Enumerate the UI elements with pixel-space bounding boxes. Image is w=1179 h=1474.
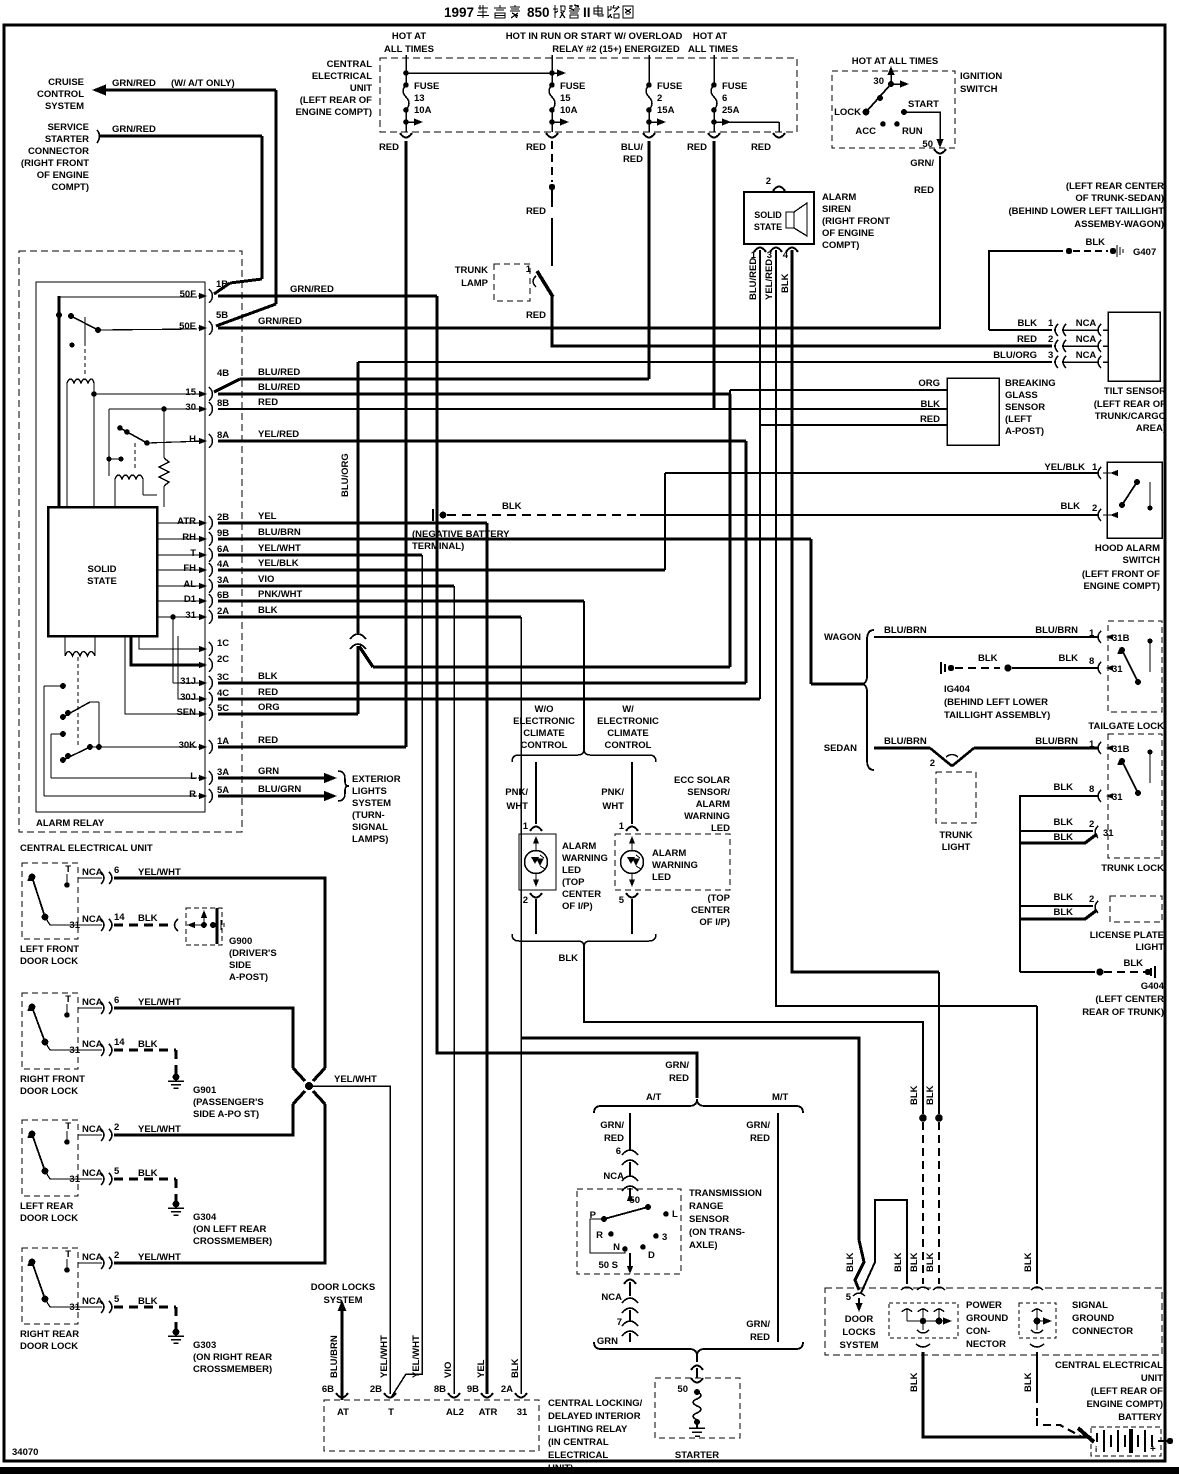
- svg-text:4B: 4B: [217, 368, 229, 379]
- svg-text:G407: G407: [1133, 247, 1156, 258]
- wire BLK dashed pair from dots: [919, 1114, 927, 1122]
- svg-text:YEL/WHT: YEL/WHT: [334, 1074, 377, 1085]
- svg-text:DOOR LOCK: DOOR LOCK: [20, 1213, 78, 1224]
- wire YEL/WHT RF T to X junction: [114, 1008, 293, 1068]
- svg-text:OF ENGINE: OF ENGINE: [37, 170, 89, 181]
- svg-text:ATR: ATR: [479, 1407, 498, 1418]
- svg-text:FUSE: FUSE: [414, 81, 439, 92]
- svg-text:8A: 8A: [217, 430, 229, 441]
- wire GRN 3A to exterior lights: [218, 776, 330, 779]
- svg-text:ATR: ATR: [177, 516, 196, 527]
- svg-text:T: T: [190, 548, 196, 559]
- svg-text:ECC SOLAR: ECC SOLAR: [674, 775, 730, 786]
- relay switch 2: [117, 425, 123, 431]
- svg-text:30J: 30J: [180, 692, 196, 703]
- svg-text:RED: RED: [669, 1073, 689, 1084]
- svg-text:UNIT): UNIT): [548, 1463, 573, 1474]
- svg-text:2: 2: [930, 758, 935, 769]
- wire riser VIO 3A x454 down to pin 8B: [453, 586, 455, 1394]
- wire BLK license plate pair: [1020, 905, 1093, 907]
- svg-text:DOOR: DOOR: [845, 1314, 874, 1325]
- svg-text:14: 14: [114, 912, 125, 923]
- svg-text:LEFT REAR: LEFT REAR: [20, 1201, 73, 1212]
- wire BLK to G407: [989, 251, 1063, 330]
- svg-text:G304: G304: [193, 1212, 217, 1223]
- left front door lock box: [22, 863, 78, 939]
- svg-text:GRN/RED: GRN/RED: [258, 316, 302, 327]
- svg-text:HOT IN RUN OR START W/ OVERLOA: HOT IN RUN OR START W/ OVERLOAD: [506, 31, 683, 42]
- svg-text:YEL/WHT: YEL/WHT: [258, 543, 301, 554]
- svg-text:(BEHIND LOWER LEFT TAILLIGHT: (BEHIND LOWER LEFT TAILLIGHT: [1009, 206, 1165, 217]
- wire link fuse13 to fuse15 inside CEU: [406, 72, 552, 74]
- svg-text:NCA: NCA: [82, 1124, 103, 1135]
- svg-text:ORG: ORG: [918, 378, 940, 389]
- alarm warning LED w/ ECC symbol: [621, 851, 644, 874]
- ground symbol G901: [173, 1074, 180, 1081]
- svg-text:OF I/P): OF I/P): [562, 901, 593, 912]
- svg-text:4C: 4C: [217, 688, 229, 699]
- siren pins 1 3 4: [754, 248, 766, 253]
- svg-text:1: 1: [1092, 462, 1098, 473]
- svg-text:LIGHT: LIGHT: [1136, 942, 1165, 953]
- tailgate lock box: [1108, 621, 1162, 712]
- svg-text:BLK: BLK: [1017, 318, 1037, 329]
- svg-text:ALARM RELAY: ALARM RELAY: [36, 818, 105, 829]
- svg-text:RED: RED: [750, 1332, 770, 1343]
- central electrical unit dashed box (left): [19, 251, 242, 832]
- svg-text:W/O: W/O: [535, 704, 554, 715]
- svg-text:CONTROL: CONTROL: [521, 740, 568, 751]
- svg-text:STARTER: STARTER: [675, 1450, 719, 1461]
- svg-text:FUSE: FUSE: [657, 81, 682, 92]
- wire riser x730 (BLU/RED 15) down to row 667: [728, 394, 731, 667]
- svg-text:50 S: 50 S: [598, 1260, 618, 1271]
- ignition switch contacts and blade: [888, 81, 894, 87]
- svg-text:PNK/WHT: PNK/WHT: [258, 589, 303, 600]
- svg-text:AREA): AREA): [1136, 423, 1166, 434]
- wire BLK 3C to riser x746: [218, 681, 746, 684]
- svg-text:RUN: RUN: [902, 126, 923, 137]
- svg-text:6: 6: [616, 1146, 621, 1157]
- svg-text:CENTER: CENTER: [691, 905, 730, 916]
- transmission switch contacts: [645, 1204, 651, 1210]
- svg-text:LIGHT: LIGHT: [942, 842, 971, 853]
- svg-text:BLU/ORG: BLU/ORG: [993, 350, 1037, 361]
- exterior lights brace: [338, 771, 349, 801]
- svg-text:BLK: BLK: [1053, 782, 1073, 793]
- svg-text:A-POST): A-POST): [229, 972, 268, 983]
- svg-text:BLK: BLK: [138, 1168, 158, 1179]
- svg-text:BLK: BLK: [893, 1252, 904, 1272]
- wagon sedan brace: [861, 630, 874, 770]
- svg-text:RED: RED: [379, 142, 399, 153]
- lower brace LED columns: [512, 934, 656, 947]
- svg-text:(PASSENGER'S: (PASSENGER'S: [193, 1097, 264, 1108]
- wire GRN/RED ignition 50 down to 50E row: [939, 156, 941, 329]
- svg-text:6: 6: [114, 865, 119, 876]
- svg-text:BLK: BLK: [780, 273, 791, 293]
- svg-text:BLU/: BLU/: [621, 142, 644, 153]
- wire BLK power ground down to battery: [923, 1352, 1089, 1437]
- svg-text:2: 2: [1092, 503, 1097, 514]
- svg-text:SIGNAL: SIGNAL: [352, 822, 388, 833]
- svg-text:GRN/: GRN/: [600, 1120, 624, 1131]
- svg-text:(DRIVER'S: (DRIVER'S: [229, 948, 277, 959]
- svg-text:BLK: BLK: [258, 671, 278, 682]
- wire row 667 from riser x730 to BLU/ORG connector: [373, 665, 730, 668]
- svg-text:5: 5: [114, 1166, 120, 1177]
- svg-text:31B: 31B: [1112, 744, 1130, 755]
- svg-text:TILT SENSOR: TILT SENSOR: [1104, 386, 1166, 397]
- svg-text:L: L: [672, 1209, 678, 1220]
- svg-text:GROUND: GROUND: [966, 1313, 1008, 1324]
- svg-text:RED: RED: [258, 687, 278, 698]
- alarm warning LED w/ ECC wire bottom: [631, 899, 633, 934]
- svg-text:WHT: WHT: [506, 801, 528, 812]
- svg-text:1: 1: [523, 821, 529, 832]
- pin 2B T central locking relay: [384, 1393, 396, 1398]
- svg-text:34070: 34070: [12, 1447, 38, 1458]
- pin 8B AL2 central locking relay: [448, 1393, 460, 1398]
- wire BLK glass sensor row: [218, 408, 947, 410]
- bottom central electrical unit dashed box: [825, 1288, 1162, 1355]
- svg-text:ALL TIMES: ALL TIMES: [688, 44, 738, 55]
- left rear door lock 31 pin row: [78, 1178, 102, 1180]
- svg-text:TRUNK LOCK: TRUNK LOCK: [1101, 863, 1164, 874]
- svg-text:10A: 10A: [560, 105, 578, 116]
- svg-text:3A: 3A: [217, 767, 229, 778]
- wire BLK G404 wagon to tailgate 31: [941, 662, 945, 674]
- svg-text:(LEFT REAR OF: (LEFT REAR OF: [1091, 1386, 1163, 1397]
- wire riser GRN/RED 50F x437 down then right to A/T: [437, 296, 697, 1098]
- svg-text:TRUNK: TRUNK: [939, 830, 972, 841]
- trunk light box: [936, 772, 976, 823]
- hook wire power ground pin1 to door locks wire: [861, 1200, 907, 1293]
- svg-text:NCA: NCA: [82, 867, 103, 878]
- svg-text:ALARM: ALARM: [652, 848, 686, 859]
- svg-text:R: R: [189, 789, 196, 800]
- bottom thick border bar: [0, 1467, 1179, 1474]
- svg-text:RED: RED: [687, 142, 707, 153]
- svg-text:2B: 2B: [370, 1384, 382, 1395]
- svg-text:GRN: GRN: [597, 1336, 618, 1347]
- svg-text:CONTROL: CONTROL: [37, 89, 84, 100]
- svg-text:5A: 5A: [217, 785, 229, 796]
- svg-text:YEL/WHT: YEL/WHT: [138, 997, 181, 1008]
- svg-text:31J: 31J: [180, 676, 196, 687]
- svg-text:YEL: YEL: [258, 511, 277, 522]
- svg-text:YEL/WHT: YEL/WHT: [411, 1335, 422, 1378]
- svg-text:14: 14: [114, 1037, 125, 1048]
- svg-text:A-POST): A-POST): [1005, 426, 1044, 437]
- svg-text:POWER: POWER: [966, 1300, 1002, 1311]
- svg-text:OF ENGINE: OF ENGINE: [822, 228, 874, 239]
- alarm relay inner box: [36, 282, 205, 812]
- wire 15 row inside relay: [91, 391, 97, 397]
- left rear door lock box: [22, 1120, 78, 1196]
- svg-text:5B: 5B: [216, 310, 228, 321]
- svg-text:NCA: NCA: [1076, 334, 1097, 345]
- svg-text:8: 8: [1089, 784, 1094, 795]
- svg-text:RIGHT REAR: RIGHT REAR: [20, 1329, 79, 1340]
- svg-text:RED: RED: [258, 735, 278, 746]
- svg-text:SYSTEM: SYSTEM: [45, 101, 84, 112]
- wire BLK door locks 5 bend: [855, 1240, 864, 1290]
- svg-text:6: 6: [114, 995, 119, 1006]
- alarm warning LED w/ ECC pin bottom: [626, 893, 638, 898]
- wires solid state right edge to pins: [157, 522, 205, 524]
- wire BLU/BRN 9B to riser x811: [218, 537, 811, 540]
- wire RED 4C to riser x760: [218, 697, 760, 700]
- svg-text:BATTERY: BATTERY: [1118, 1412, 1162, 1423]
- svg-text:TRUNK/CARGO: TRUNK/CARGO: [1095, 411, 1166, 422]
- svg-text:ENGINE COMPT): ENGINE COMPT): [1083, 581, 1160, 592]
- svg-text:1997: 1997: [444, 5, 474, 20]
- trunk lock box: [1108, 734, 1162, 858]
- ground symbol G304: [173, 1201, 180, 1208]
- right front door lock switch: [29, 1004, 36, 1011]
- svg-text:SIREN: SIREN: [822, 204, 851, 215]
- svg-text:SENSOR: SENSOR: [1005, 402, 1045, 413]
- svg-text:G901: G901: [193, 1085, 217, 1096]
- alarm siren box: [744, 192, 814, 244]
- svg-text:2: 2: [523, 895, 528, 906]
- svg-text:GRN: GRN: [258, 766, 279, 777]
- svg-text:50: 50: [629, 1195, 640, 1206]
- left rear door lock switch: [29, 1131, 36, 1138]
- svg-text:BLK: BLK: [909, 1252, 920, 1272]
- X junction of YEL/WHT wires: [293, 1068, 305, 1081]
- wire riser YEL 2B x487 down to pin 9B: [485, 523, 488, 1394]
- svg-text:BLK: BLK: [510, 1358, 521, 1378]
- wire vertical from cruise line down to pin 5B: [275, 90, 278, 304]
- wire 1B diagonal: [214, 283, 230, 294]
- svg-text:SOLID: SOLID: [87, 564, 116, 575]
- wire to starter: [696, 1356, 698, 1362]
- svg-text:RED: RED: [526, 310, 546, 321]
- wire YEL/WHT X junction to relay pin 2B: [313, 1086, 390, 1394]
- power ground connector box: [889, 1303, 958, 1338]
- svg-text:9B: 9B: [217, 528, 229, 539]
- svg-text:BLK: BLK: [978, 653, 998, 664]
- svg-text:BLK: BLK: [1123, 958, 1143, 969]
- wire riser x665 hood YEL/BLK down to 4A row: [664, 473, 666, 570]
- svg-text:RANGE: RANGE: [689, 1201, 723, 1212]
- svg-text:5: 5: [619, 895, 625, 906]
- alarm warning LED w/ ECC box: [615, 834, 730, 890]
- svg-text:D: D: [648, 1250, 655, 1261]
- alarm warning LED w/o ECC wire top: [535, 762, 537, 824]
- svg-text:LAMP: LAMP: [461, 278, 489, 289]
- power ground connector pins: [901, 1287, 913, 1290]
- svg-text:FH: FH: [183, 563, 196, 574]
- svg-text:WHT: WHT: [602, 801, 624, 812]
- svg-text:CENTRAL ELECTRICAL UNIT: CENTRAL ELECTRICAL UNIT: [20, 843, 153, 854]
- svg-text:LED: LED: [562, 865, 581, 876]
- wire BLU/BRN wagon row: [874, 636, 1098, 638]
- wire BLK neg battery to hood pin 2: [447, 514, 640, 516]
- svg-text:SENSOR/: SENSOR/: [687, 787, 730, 798]
- svg-text:BLK: BLK: [258, 605, 278, 616]
- alarm warning LED w/o ECC pin bottom: [530, 893, 542, 898]
- trunk lamp switch blade: [533, 276, 536, 287]
- svg-text:II: II: [583, 5, 591, 20]
- svg-text:GLASS: GLASS: [1005, 390, 1038, 401]
- svg-text:DOOR LOCKS: DOOR LOCKS: [311, 1282, 375, 1293]
- svg-text:1: 1: [1089, 739, 1095, 750]
- svg-text:SEDAN: SEDAN: [824, 743, 857, 754]
- svg-text:50E: 50E: [179, 321, 196, 332]
- solid state bottom coil: [64, 636, 66, 650]
- svg-text:TRUNK: TRUNK: [455, 265, 488, 276]
- svg-text:BLK: BLK: [845, 1252, 856, 1272]
- svg-text:2: 2: [1089, 894, 1094, 905]
- wire riser x746 (YEL/RED 8A) down to 3C row: [744, 441, 747, 683]
- svg-text:D1: D1: [184, 594, 197, 605]
- svg-text:LAMPS): LAMPS): [352, 834, 388, 845]
- svg-text:M/T: M/T: [772, 1092, 789, 1103]
- svg-text:CONNECTOR: CONNECTOR: [28, 146, 89, 157]
- svg-text:BLK: BLK: [1053, 892, 1073, 903]
- svg-text:10A: 10A: [414, 105, 432, 116]
- svg-text:GROUND: GROUND: [1072, 1313, 1114, 1324]
- wire BLK branch row 1038 to door locks 5: [521, 1038, 859, 1240]
- svg-text:HOOD ALARM: HOOD ALARM: [1095, 543, 1160, 554]
- svg-text:RED: RED: [604, 1133, 624, 1144]
- svg-text:NCA: NCA: [82, 997, 103, 1008]
- svg-text:BLK: BLK: [558, 953, 578, 964]
- svg-text:RED: RED: [526, 142, 546, 153]
- svg-text:DOOR LOCK: DOOR LOCK: [20, 1086, 78, 1097]
- wire VIO 3A to riser x454: [218, 584, 454, 587]
- svg-text:31: 31: [517, 1407, 528, 1418]
- svg-text:RED: RED: [258, 397, 278, 408]
- ground G304: [114, 1178, 176, 1181]
- svg-text:LIGHTS: LIGHTS: [352, 786, 387, 797]
- svg-text:BLK: BLK: [1053, 907, 1073, 918]
- svg-text:L: L: [190, 771, 196, 782]
- relay coil 1: [67, 379, 94, 383]
- svg-text:9B: 9B: [467, 1384, 479, 1395]
- svg-text:30K: 30K: [179, 740, 197, 751]
- svg-text:NCA: NCA: [82, 914, 103, 925]
- wire BLK trunk lock 8/31: [1020, 796, 1098, 827]
- svg-text:6B: 6B: [217, 590, 229, 601]
- svg-text:(LEFT: (LEFT: [1005, 414, 1032, 425]
- svg-text:(BEHIND LEFT LOWER: (BEHIND LEFT LOWER: [944, 697, 1048, 708]
- svg-text:SIDE: SIDE: [229, 960, 251, 971]
- svg-text:COMPT): COMPT): [52, 182, 89, 193]
- wire RED fuse6 down to RED row 409: [712, 141, 715, 409]
- svg-text:2: 2: [114, 1122, 119, 1133]
- svg-text:ENGINE COMPT): ENGINE COMPT): [1086, 1399, 1163, 1410]
- svg-text:(IN CENTRAL: (IN CENTRAL: [548, 1437, 609, 1448]
- svg-text:VIO: VIO: [258, 574, 274, 585]
- tilt sensor row BLK 1: [989, 329, 1052, 331]
- svg-text:AL: AL: [183, 579, 196, 590]
- svg-text:(LEFT REAR CENTER: (LEFT REAR CENTER: [1066, 181, 1164, 192]
- svg-text:CON-: CON-: [966, 1326, 990, 1337]
- svg-text:BLU/BRN: BLU/BRN: [329, 1335, 340, 1378]
- relay top switch: [59, 296, 197, 298]
- fuse 6 25A: [713, 55, 715, 85]
- relay thick vertical to solid state: [58, 296, 61, 507]
- hood switch blade: [1134, 479, 1140, 485]
- wire BLU/RED siren pin1 down to 4C row: [759, 250, 761, 699]
- svg-text:WAGON: WAGON: [824, 632, 861, 643]
- svg-text:BLK: BLK: [1053, 817, 1073, 828]
- svg-text:6B: 6B: [322, 1384, 334, 1395]
- svg-text:BLK: BLK: [1058, 653, 1078, 664]
- wire riser BLU/BRN x811 down to wagon/sedan brace: [809, 539, 812, 684]
- wire BLU/BRN arrow to door locks system: [341, 1310, 344, 1400]
- svg-text:50: 50: [677, 1384, 688, 1395]
- svg-text:START: START: [908, 99, 939, 110]
- relay resistor: [163, 409, 165, 458]
- svg-text:3C: 3C: [217, 672, 229, 683]
- wire RED glass sensor row from siren riser: [760, 424, 947, 426]
- pin 6B AT central locking relay: [336, 1393, 348, 1398]
- wire BLU/BRN sedan row with trunk light tap: [874, 747, 930, 750]
- ignition switch dashed box: [832, 71, 955, 148]
- svg-text:ENGINE COMPT): ENGINE COMPT): [295, 107, 372, 118]
- starter coil: [693, 1392, 701, 1420]
- svg-text:BLU/RED: BLU/RED: [748, 258, 759, 300]
- wire RED fuse2 down to BLU/RED row 379: [647, 141, 650, 379]
- wire GRN/RED 50F to A/T riser: [218, 295, 437, 298]
- fuse 2 15A: [648, 55, 650, 85]
- svg-text:WARNING: WARNING: [652, 860, 698, 871]
- svg-text:25A: 25A: [722, 105, 740, 116]
- ground G303: [114, 1306, 176, 1309]
- svg-text:BLK: BLK: [1085, 237, 1105, 248]
- svg-text:(RIGHT FRONT: (RIGHT FRONT: [822, 216, 890, 227]
- wire 4B diagonal from pin 15: [214, 379, 240, 392]
- svg-text:WARNING: WARNING: [684, 811, 730, 822]
- svg-text:CLIMATE: CLIMATE: [607, 728, 649, 739]
- svg-text:TAILLIGHT ASSEMBLY): TAILLIGHT ASSEMBLY): [944, 710, 1050, 721]
- wire YEL/WHT 6A to riser x422: [218, 553, 422, 556]
- svg-text:EXTERIOR: EXTERIOR: [352, 774, 401, 785]
- svg-text:(TOP: (TOP: [707, 893, 730, 904]
- wire BLK riser signal ground x1037: [1036, 1006, 1038, 1284]
- wire 30 row inside relay: [109, 408, 205, 410]
- svg-text:1: 1: [1089, 628, 1095, 639]
- svg-text:SENSOR: SENSOR: [689, 1214, 729, 1225]
- svg-text:(ON TRANS-: (ON TRANS-: [689, 1227, 745, 1238]
- svg-text:2A: 2A: [217, 606, 229, 617]
- speaker icon: [786, 212, 794, 228]
- svg-text:2: 2: [114, 1250, 119, 1261]
- signal ground connector: [1031, 1287, 1043, 1290]
- wire BLK 2A to riser x521: [218, 615, 521, 618]
- svg-text:(ON LEFT REAR: (ON LEFT REAR: [193, 1224, 266, 1235]
- wire BLU/ORG riser (ORG 5C up to tilt 3): [356, 362, 359, 633]
- svg-text:NCA: NCA: [601, 1292, 622, 1303]
- svg-text:BLK: BLK: [502, 501, 522, 512]
- svg-text:GRN/RED: GRN/RED: [112, 78, 156, 89]
- right front door lock 31 pin row: [78, 1049, 102, 1051]
- svg-text:i: i: [1095, 1445, 1097, 1454]
- svg-text:H: H: [189, 434, 196, 445]
- svg-text:8B: 8B: [434, 1384, 446, 1395]
- svg-text:13: 13: [414, 93, 425, 104]
- svg-text:AXLE): AXLE): [689, 1240, 718, 1251]
- wire NCA below trans: [624, 1280, 636, 1285]
- svg-text:31: 31: [1103, 828, 1114, 839]
- svg-text:NCA: NCA: [1076, 318, 1097, 329]
- breaking glass sensor box: [947, 378, 999, 445]
